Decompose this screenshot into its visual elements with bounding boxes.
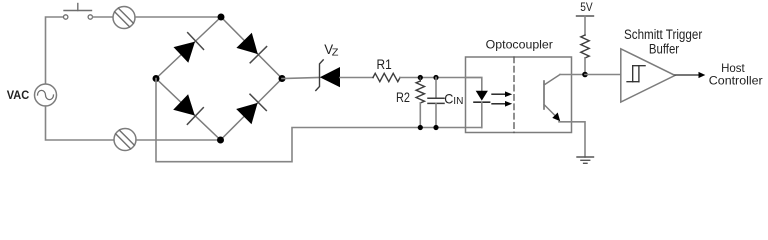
wire node to buffer [585, 74, 621, 76]
node bridge bottom [217, 137, 224, 144]
node R2 top [418, 75, 423, 80]
svg-text:Controller: Controller [709, 74, 763, 88]
ground [577, 157, 594, 163]
wire switch to lamp1 [93, 16, 113, 18]
optocoupler LED [466, 78, 490, 128]
node collector / buffer input [582, 72, 588, 78]
switch S1 (push-button, N.O.) [63, 4, 92, 20]
svg-text:Z: Z [332, 48, 339, 59]
node bridge right [279, 75, 286, 82]
output arrowhead [699, 72, 706, 78]
resistor R1 [373, 73, 400, 81]
wire R1 to optocoupler input [400, 77, 482, 79]
bridge diamond edges [156, 17, 282, 140]
wire buffer output [675, 74, 699, 76]
Schmitt trigger buffer U2 [621, 49, 675, 102]
node CIN top [433, 75, 438, 80]
svg-text:5V: 5V [580, 0, 592, 14]
optocoupler U1 box [466, 57, 572, 133]
diode D1 (bridge, left to top) [174, 33, 204, 63]
svg-text:VAC: VAC [7, 88, 30, 102]
diode D3 (bridge, left to bottom) [173, 94, 203, 124]
svg-text:R1: R1 [377, 56, 392, 72]
hysteresis symbol [627, 66, 645, 82]
node CIN bottom [433, 125, 438, 130]
svg-text:Schmitt Trigger: Schmitt Trigger [624, 27, 703, 42]
svg-text:R2: R2 [396, 89, 410, 105]
wire bridge right node to zener [282, 78, 320, 79]
node R2 bottom [418, 125, 423, 130]
AC source VAC [35, 84, 57, 106]
lamp 2 [114, 129, 136, 151]
resistor R2 [416, 78, 424, 128]
diode D2 (bridge, top to right) [236, 33, 266, 63]
optocoupler internal dashed divider [513, 57, 515, 133]
wire VAC bottom to lamp2 [46, 106, 115, 140]
svg-text:C: C [444, 90, 453, 106]
wire lamp2 to bridge bottom node [136, 139, 221, 141]
lamp 1 [113, 7, 135, 29]
light arrows [492, 91, 512, 106]
phototransistor Q1 [544, 75, 560, 122]
wire pull-up to collector node [584, 58, 586, 75]
wire 5V to pull-up resistor [584, 16, 586, 35]
node bridge top [218, 14, 225, 21]
diode D4 (bridge, bottom to right) [236, 94, 266, 124]
zener diode Vz [316, 60, 340, 91]
wire zener to R1 [340, 77, 373, 79]
wire bridge left node to bottom return rail [156, 79, 482, 162]
capacitor CIN [428, 78, 444, 128]
resistor R3 (pull-up) [581, 35, 589, 58]
svg-text:Buffer: Buffer [649, 42, 680, 57]
svg-text:IN: IN [453, 95, 463, 107]
wire collector to node [560, 74, 585, 76]
wire emitter to ground [559, 122, 585, 157]
node bridge left [153, 75, 160, 82]
wire VAC top to switch [46, 17, 64, 84]
svg-text:Optocoupler: Optocoupler [486, 37, 553, 51]
5V supply rail [577, 15, 594, 17]
wire lamp1 to bridge top node [135, 16, 221, 18]
